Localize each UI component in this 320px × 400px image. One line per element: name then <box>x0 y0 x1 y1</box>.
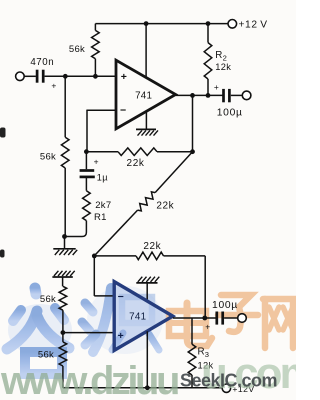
watermark glyph YUAN (blue) <box>82 286 172 354</box>
svg-text:12k: 12k <box>215 62 231 72</box>
capacitor 1u <box>85 152 87 170</box>
wire bottom rail <box>63 387 222 389</box>
resistor 22k diagonal <box>155 152 192 193</box>
wire <box>24 75 36 77</box>
terminal +12V <box>228 20 237 29</box>
node B (junction 22k/diag) <box>190 149 195 154</box>
wire <box>224 317 238 319</box>
terminal output 2 <box>238 314 247 323</box>
resistor 56k (input to node C) <box>64 76 66 137</box>
op-amp U1 741 <box>116 60 176 129</box>
junction output node U2 <box>202 316 207 321</box>
wire U1 inverting input <box>87 109 116 111</box>
svg-text:R1: R1 <box>94 212 107 223</box>
svg-text:100µ: 100µ <box>212 300 238 311</box>
svg-text:470n: 470n <box>30 57 54 68</box>
svg-text:56k: 56k <box>40 152 56 163</box>
node E (U2 plus net) <box>61 330 66 335</box>
resistor 56k (R top) <box>94 24 96 31</box>
svg-text:56k: 56k <box>69 44 85 55</box>
node opamp1 plus-input <box>93 74 98 79</box>
capacitor 100u bottom <box>215 312 218 325</box>
resistor 22k (U2 feedback) <box>94 255 136 257</box>
watermark glyph WANG (orange) <box>263 299 293 348</box>
svg-text:SeekIC.com: SeekIC.com <box>180 371 277 391</box>
svg-text:56k: 56k <box>40 294 56 305</box>
terminal +12V bottom <box>222 384 230 392</box>
terminal output 1 <box>242 91 251 100</box>
resistor R2 12k <box>207 24 209 43</box>
junction U2 V- rail <box>145 385 150 390</box>
node D (U2 minus net) <box>92 254 97 259</box>
svg-text:+: + <box>121 71 127 83</box>
wire +12V rail <box>95 23 227 25</box>
watermark U2 area blue fill <box>114 282 173 351</box>
svg-text:−: − <box>120 104 126 116</box>
resistor 22k (U1 feedback) <box>87 151 118 153</box>
svg-text:+: + <box>214 82 219 92</box>
svg-text:www.dziuu: www.dziuu <box>0 359 178 400</box>
wire U1 V- pin <box>145 112 147 130</box>
resistor R1 2k7 <box>85 177 87 191</box>
watermark glyph RONG (blue) <box>7 288 72 374</box>
wire U2 non-inverting input <box>63 332 114 334</box>
junction output node U1 <box>190 93 195 98</box>
wire <box>45 75 116 77</box>
wire U2 output <box>173 317 216 319</box>
resistor R3 12k <box>191 318 193 344</box>
edge mark <box>0 250 5 258</box>
svg-text:22k: 22k <box>143 241 161 252</box>
node input <box>63 74 68 79</box>
input terminal J1 <box>16 72 25 81</box>
svg-text:22k: 22k <box>127 158 145 169</box>
svg-text:+12 V: +12 V <box>239 20 268 31</box>
watermark glyph ZI (orange) <box>218 295 258 332</box>
ground above 56k bias <box>52 276 72 278</box>
wire U2 inverting input <box>93 256 95 296</box>
junction R2-output <box>206 93 211 98</box>
svg-text:+: + <box>205 322 210 332</box>
svg-text:+: + <box>51 80 56 90</box>
svg-text:+: + <box>118 330 124 342</box>
node A (U1 minus net) <box>84 149 89 154</box>
resistor 56k (bias lower) <box>59 342 67 366</box>
wire output drop <box>192 95 194 151</box>
svg-text:741: 741 <box>135 90 152 101</box>
ground of U2 <box>136 282 157 284</box>
edge mark <box>0 128 6 138</box>
wire <box>231 94 243 96</box>
op-amp U2 741 <box>114 282 173 351</box>
wire U2 V- pin <box>146 331 148 388</box>
watermark glyph DIAN (orange) <box>169 303 212 346</box>
wire U1 output <box>176 94 223 96</box>
wire opamp1 V+ pin <box>145 24 147 78</box>
svg-text:22k: 22k <box>156 200 174 211</box>
svg-text:−: − <box>118 291 124 303</box>
junction rail-R2 <box>206 21 211 26</box>
svg-text:741: 741 <box>129 311 146 322</box>
ground of U1 <box>136 128 156 130</box>
svg-text:1µ: 1µ <box>97 173 108 183</box>
capacitor 100u top <box>222 89 225 102</box>
resistor 56k (bias upper) <box>59 286 67 310</box>
junction rail-opamp1 <box>144 21 149 26</box>
svg-text:R: R <box>215 50 222 61</box>
svg-text:+: + <box>94 157 99 167</box>
ground of node C <box>64 237 66 249</box>
svg-text:100µ: 100µ <box>217 107 243 118</box>
svg-text:2k7: 2k7 <box>95 200 111 211</box>
capacitor 470n <box>36 70 39 83</box>
node C <box>62 234 67 239</box>
